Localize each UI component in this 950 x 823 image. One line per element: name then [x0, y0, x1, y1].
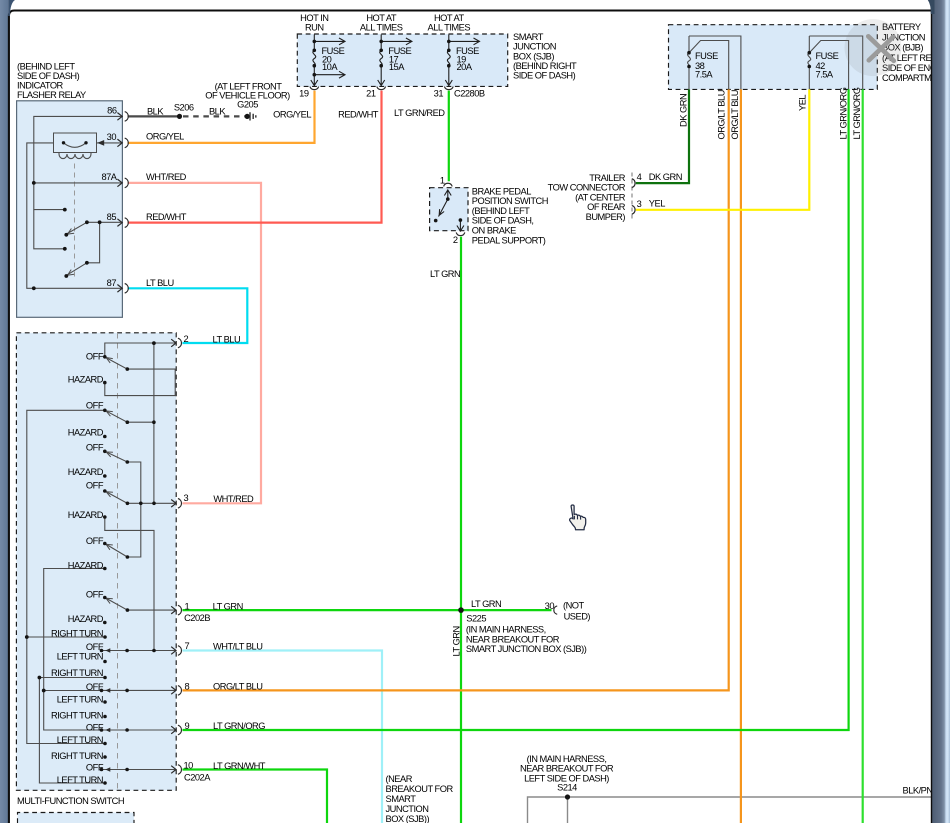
svg-text:ORG/YEL: ORG/YEL	[273, 109, 311, 119]
svg-text:LT GRN/RED: LT GRN/RED	[394, 108, 445, 118]
svg-text:WHT/RED: WHT/RED	[146, 172, 187, 182]
svg-text:OFF: OFF	[86, 722, 104, 732]
svg-text:87A: 87A	[101, 172, 117, 182]
svg-text:LT BLU: LT BLU	[146, 278, 174, 288]
svg-text:DK GRN: DK GRN	[678, 94, 688, 127]
svg-text:SMART: SMART	[513, 32, 544, 42]
svg-text:RUN: RUN	[305, 23, 324, 33]
svg-text:1: 1	[440, 175, 445, 185]
svg-text:(AT CENTER: (AT CENTER	[575, 192, 626, 202]
svg-text:SIDE OF DASH,: SIDE OF DASH,	[472, 216, 534, 226]
svg-text:WHT/LT BLU: WHT/LT BLU	[213, 641, 262, 651]
svg-text:30: 30	[545, 601, 555, 611]
svg-text:LT GRN/ORG: LT GRN/ORG	[838, 87, 848, 139]
svg-text:(BEHIND LEFT: (BEHIND LEFT	[17, 62, 75, 72]
svg-text:BOX (SJB): BOX (SJB)	[513, 51, 554, 61]
svg-text:LT GRN: LT GRN	[471, 599, 501, 609]
svg-text:ORG/LT BLU: ORG/LT BLU	[213, 681, 262, 691]
svg-text:BOX (SJB)): BOX (SJB))	[386, 814, 430, 823]
svg-text:USED): USED)	[564, 612, 591, 622]
svg-text:ON BRAKE: ON BRAKE	[472, 226, 516, 236]
svg-text:LT GRN: LT GRN	[213, 601, 243, 611]
svg-text:8: 8	[185, 681, 190, 691]
svg-text:(NEAR: (NEAR	[386, 774, 413, 784]
svg-text:HAZARD: HAZARD	[68, 427, 104, 437]
svg-text:2: 2	[453, 235, 458, 245]
svg-text:15A: 15A	[389, 62, 405, 72]
svg-text:(IN MAIN HARNESS,: (IN MAIN HARNESS,	[527, 754, 607, 764]
svg-text:ALL TIMES: ALL TIMES	[360, 23, 403, 33]
svg-text:OFF: OFF	[86, 351, 104, 361]
svg-text:21: 21	[366, 88, 376, 98]
svg-text:BRAKE PEDAL: BRAKE PEDAL	[472, 186, 531, 196]
svg-text:LEFT TURN: LEFT TURN	[57, 775, 103, 785]
svg-text:OFF: OFF	[86, 682, 104, 692]
svg-text:ORG/YEL: ORG/YEL	[146, 132, 184, 142]
svg-text:1: 1	[185, 601, 190, 611]
svg-text:S214: S214	[557, 782, 577, 792]
svg-text:LT BLU: LT BLU	[213, 334, 241, 344]
svg-text:HOT IN: HOT IN	[300, 13, 328, 23]
svg-text:LT GRN: LT GRN	[452, 626, 462, 656]
svg-text:HOT AT: HOT AT	[366, 13, 397, 23]
svg-text:BUMPER): BUMPER)	[586, 212, 626, 222]
svg-text:LT GRN/WHT: LT GRN/WHT	[213, 761, 266, 771]
svg-text:HAZARD: HAZARD	[68, 614, 104, 624]
svg-text:FUSE: FUSE	[695, 51, 718, 61]
svg-text:ORG/LT BLU: ORG/LT BLU	[730, 90, 740, 139]
svg-text:20A: 20A	[457, 62, 473, 72]
svg-text:RED/WHT: RED/WHT	[146, 212, 187, 222]
svg-text:SIDE OF DASH): SIDE OF DASH)	[513, 71, 576, 81]
svg-text:BLK: BLK	[147, 107, 164, 117]
svg-text:BREAKOUT FOR: BREAKOUT FOR	[386, 784, 454, 794]
svg-text:7.5A: 7.5A	[816, 69, 834, 79]
svg-text:WHT/RED: WHT/RED	[213, 494, 254, 504]
svg-text:31: 31	[434, 88, 444, 98]
svg-text:MULTI-FUNCTION SWITCH: MULTI-FUNCTION SWITCH	[17, 796, 124, 806]
svg-text:19: 19	[299, 88, 309, 98]
svg-text:HOT AT: HOT AT	[434, 13, 465, 23]
svg-text:ORG/LT BLU: ORG/LT BLU	[717, 90, 727, 139]
svg-text:RIGHT TURN: RIGHT TURN	[51, 628, 103, 638]
svg-text:10A: 10A	[322, 62, 338, 72]
svg-text:4: 4	[637, 172, 642, 182]
svg-text:C202A: C202A	[184, 772, 211, 782]
svg-text:C2280B: C2280B	[454, 88, 485, 98]
svg-text:OFF: OFF	[86, 762, 104, 772]
svg-text:PEDAL SUPPORT): PEDAL SUPPORT)	[472, 235, 546, 245]
svg-text:LT GRN/ORG: LT GRN/ORG	[213, 721, 265, 731]
svg-text:OF VEHICLE FLOOR): OF VEHICLE FLOOR)	[205, 91, 290, 101]
svg-text:RIGHT TURN: RIGHT TURN	[51, 668, 103, 678]
svg-text:HAZARD: HAZARD	[68, 510, 104, 520]
svg-text:87: 87	[107, 278, 117, 288]
svg-text:TRAILER: TRAILER	[589, 173, 626, 183]
svg-text:ALL TIMES: ALL TIMES	[428, 23, 471, 33]
svg-text:BLK: BLK	[209, 107, 226, 117]
svg-text:OFF: OFF	[86, 589, 104, 599]
svg-text:OFF: OFF	[86, 642, 104, 652]
svg-text:YEL: YEL	[798, 95, 808, 111]
svg-text:7.5A: 7.5A	[695, 69, 713, 79]
svg-text:SIDE OF DASH): SIDE OF DASH)	[17, 71, 80, 81]
svg-text:OF REAR: OF REAR	[587, 202, 626, 212]
svg-text:LT GRN/ORG: LT GRN/ORG	[852, 87, 862, 139]
svg-text:NEAR BREAKOUT FOR: NEAR BREAKOUT FOR	[520, 764, 614, 774]
svg-text:OFF: OFF	[86, 536, 104, 546]
svg-text:7: 7	[185, 641, 190, 651]
svg-text:S206: S206	[174, 103, 194, 113]
svg-text:TOW CONNECTOR: TOW CONNECTOR	[548, 183, 626, 193]
svg-text:JUNCTION: JUNCTION	[386, 804, 429, 814]
svg-text:DK GRN: DK GRN	[649, 172, 682, 182]
svg-text:HAZARD: HAZARD	[68, 560, 104, 570]
svg-text:30: 30	[107, 132, 117, 142]
svg-text:HAZARD: HAZARD	[68, 467, 104, 477]
svg-text:10: 10	[184, 760, 194, 770]
svg-text:LEFT TURN: LEFT TURN	[57, 735, 103, 745]
svg-text:(BEHIND LEFT: (BEHIND LEFT	[472, 206, 530, 216]
svg-text:YEL: YEL	[649, 199, 665, 209]
svg-text:85: 85	[107, 212, 117, 222]
svg-text:3: 3	[637, 199, 642, 209]
svg-text:SMART: SMART	[386, 794, 417, 804]
svg-text:OFF: OFF	[86, 480, 104, 490]
svg-text:(IN MAIN HARNESS,: (IN MAIN HARNESS,	[466, 625, 546, 635]
svg-text:FLASHER RELAY: FLASHER RELAY	[17, 90, 86, 100]
svg-text:INDICATOR: INDICATOR	[17, 81, 64, 91]
svg-text:LEFT TURN: LEFT TURN	[57, 651, 103, 661]
svg-text:3: 3	[184, 493, 189, 503]
svg-text:9: 9	[185, 721, 190, 731]
svg-text:G205: G205	[237, 100, 258, 110]
svg-text:(BEHIND RIGHT: (BEHIND RIGHT	[513, 61, 577, 71]
svg-text:JUNCTION: JUNCTION	[513, 41, 556, 51]
svg-text:2: 2	[184, 334, 189, 344]
svg-text:POSITION SWITCH: POSITION SWITCH	[472, 196, 548, 206]
svg-text:OFF: OFF	[86, 401, 104, 411]
svg-text:86: 86	[107, 106, 117, 116]
svg-text:S225: S225	[466, 613, 486, 623]
svg-text:OFF: OFF	[86, 442, 104, 452]
svg-text:RIGHT TURN: RIGHT TURN	[51, 751, 103, 761]
svg-text:NEAR BREAKOUT FOR: NEAR BREAKOUT FOR	[466, 634, 560, 644]
svg-text:LEFT TURN: LEFT TURN	[57, 694, 103, 704]
svg-text:SMART JUNCTION BOX (SJB)): SMART JUNCTION BOX (SJB))	[466, 644, 587, 654]
svg-text:(NOT: (NOT	[563, 600, 585, 610]
svg-text:RIGHT TURN: RIGHT TURN	[51, 710, 103, 720]
svg-text:HAZARD: HAZARD	[68, 374, 104, 384]
svg-text:C202B: C202B	[184, 613, 210, 623]
svg-text:RED/WHT: RED/WHT	[338, 109, 379, 119]
svg-text:FUSE: FUSE	[816, 51, 839, 61]
svg-text:LT GRN: LT GRN	[430, 269, 460, 279]
